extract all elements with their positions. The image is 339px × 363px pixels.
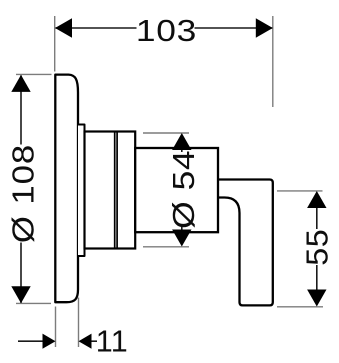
extension line bottom of dim 54 — [143, 246, 189, 248]
extension line right of dim 11 — [78, 298, 80, 348]
wall escutcheon plate (side profile) — [55, 75, 78, 303]
arrowhead 108 top — [11, 75, 30, 92]
dimension 11 right tail — [92, 340, 98, 342]
dimension line 55 lower segment — [316, 265, 318, 290]
dimension line 108 upper segment — [20, 75, 22, 144]
extension line top of dim 55 — [277, 190, 323, 192]
extension line top of dim 108 — [16, 73, 52, 75]
extension line left of dim 11 — [55, 307, 57, 348]
svg-text:55: 55 — [300, 229, 334, 266]
sleeve ring (diameter 54) — [85, 132, 136, 249]
extension line bottom of dim 108 — [16, 302, 51, 304]
dimension line 54 lower stub — [181, 226, 183, 231]
arrowhead 55 top — [307, 191, 326, 208]
svg-text:103: 103 — [136, 13, 197, 47]
arrowhead 54 bottom — [172, 230, 191, 247]
dimension line 55 upper segment — [316, 207, 318, 229]
dimension 11 left tail — [18, 340, 43, 342]
extension line left of dim 103 — [54, 16, 56, 72]
dimension line 108 lower segment — [20, 243, 22, 303]
arrowhead 11 left — [43, 334, 56, 349]
collar step — [78, 125, 85, 257]
dimension line 103 left segment — [56, 27, 137, 29]
extension line right of dim 103 — [272, 16, 274, 107]
arrowhead 54 top — [172, 133, 191, 150]
sleeve groove line 1 — [114, 131, 116, 249]
arrowhead 11 right — [79, 334, 92, 349]
svg-text:Ø 54: Ø 54 — [166, 150, 200, 229]
arrowhead 103 left — [55, 18, 72, 37]
arrowhead 55 bottom — [307, 290, 326, 307]
arrowhead 108 bottom — [11, 286, 30, 303]
lever handle — [218, 180, 273, 306]
svg-text:Ø 108: Ø 108 — [5, 144, 40, 243]
extension line top of dim 54 — [143, 132, 189, 134]
dimension line 103 right segment — [195, 27, 273, 29]
extension line bottom of dim 55 — [277, 306, 323, 308]
sleeve groove line 2 — [116, 131, 118, 249]
dimension line 54 upper stub — [181, 148, 183, 152]
arrowhead 103 right — [256, 18, 273, 37]
svg-text:11: 11 — [96, 325, 128, 359]
cartridge housing cylinder — [135, 148, 218, 232]
